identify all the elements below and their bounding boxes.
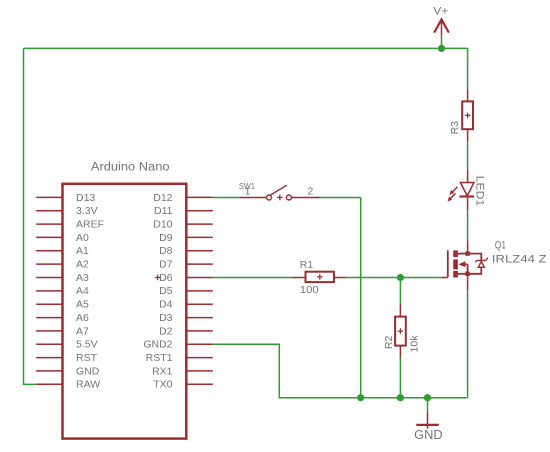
pin D12 (right) bbox=[153, 192, 213, 204]
pin GND2 (right) bbox=[143, 339, 212, 351]
svg-text:D9: D9 bbox=[159, 232, 173, 244]
pin D11 (right) bbox=[154, 205, 213, 217]
resistor R3 bbox=[449, 89, 473, 142]
wire R2 to bottom rail bbox=[399, 358, 401, 398]
svg-text:D6: D6 bbox=[159, 272, 173, 284]
svg-text:GND2: GND2 bbox=[143, 339, 172, 351]
pin RAW (left) bbox=[36, 379, 100, 391]
svg-text:D12: D12 bbox=[153, 192, 172, 204]
junction bottom GND bbox=[424, 394, 431, 401]
svg-text:RST1: RST1 bbox=[146, 352, 173, 364]
pin D2 (right) bbox=[159, 325, 213, 337]
svg-text:D8: D8 bbox=[159, 245, 173, 257]
svg-text:A5: A5 bbox=[76, 299, 89, 311]
pin GND (left) bbox=[36, 365, 100, 377]
svg-text:Arduino Nano: Arduino Nano bbox=[91, 161, 170, 173]
wire Q1 source down bbox=[467, 291, 469, 398]
pin 3.3V (left) bbox=[36, 205, 97, 217]
svg-text:RX1: RX1 bbox=[152, 365, 173, 377]
pin 5.5V (left) bbox=[36, 339, 97, 351]
switch SW1 bbox=[239, 181, 320, 200]
resistor R1 100 bbox=[292, 259, 347, 296]
junction V+ rail bbox=[438, 45, 445, 52]
pin TX0 (right) bbox=[153, 379, 213, 391]
pin D13 (left) bbox=[36, 192, 95, 204]
wire junction down to R2 bbox=[399, 278, 401, 304]
svg-text:10k: 10k bbox=[409, 335, 421, 353]
wire bottom rail bbox=[361, 397, 468, 399]
svg-text:100: 100 bbox=[300, 284, 319, 296]
wire switch branch down bbox=[360, 198, 362, 398]
pin A3 (left) bbox=[36, 272, 89, 284]
svg-text:R3: R3 bbox=[449, 121, 461, 135]
transistor Q1 IRLZ44Z bbox=[442, 240, 547, 291]
svg-text:GND: GND bbox=[76, 365, 100, 377]
svg-text:IRLZ44 Z: IRLZ44 Z bbox=[492, 254, 547, 266]
svg-text:A1: A1 bbox=[76, 245, 89, 257]
wire LED1 to Q1 drain bbox=[467, 211, 469, 241]
svg-text:D10: D10 bbox=[153, 219, 172, 231]
svg-text:R1: R1 bbox=[300, 259, 314, 271]
pin D10 (right) bbox=[153, 219, 213, 231]
svg-text:D4: D4 bbox=[159, 299, 173, 311]
pin RST1 (right) bbox=[146, 352, 213, 364]
pin A2 (left) bbox=[36, 259, 89, 271]
svg-text:A4: A4 bbox=[76, 285, 89, 297]
pin D4 (right) bbox=[159, 299, 213, 311]
svg-text:A7: A7 bbox=[76, 325, 89, 337]
svg-text:R2: R2 bbox=[383, 336, 395, 350]
junction bottom left bbox=[357, 394, 364, 401]
svg-text:3.3V: 3.3V bbox=[76, 205, 98, 217]
pin A7 (left) bbox=[36, 325, 89, 337]
origin cross D6 bbox=[155, 275, 161, 281]
svg-text:D2: D2 bbox=[159, 325, 173, 337]
pin D6 (right) bbox=[159, 272, 213, 284]
wire R3 to LED1 bbox=[467, 142, 469, 170]
svg-text:A2: A2 bbox=[76, 259, 89, 271]
pin D9 (right) bbox=[159, 232, 213, 244]
wire SW1 to corner bbox=[320, 197, 361, 199]
svg-text:AREF: AREF bbox=[76, 219, 104, 231]
pin D5 (right) bbox=[159, 285, 213, 297]
resistor R2 10k bbox=[383, 303, 421, 357]
pin A5 (left) bbox=[36, 299, 89, 311]
svg-text:1: 1 bbox=[245, 186, 251, 198]
svg-text:LED1: LED1 bbox=[474, 176, 486, 207]
pin RX1 (right) bbox=[152, 365, 213, 377]
svg-text:A6: A6 bbox=[76, 312, 89, 324]
pin RST (left) bbox=[36, 352, 97, 364]
svg-text:2: 2 bbox=[308, 186, 314, 198]
ground GND bbox=[414, 398, 442, 442]
svg-text:RAW: RAW bbox=[76, 379, 100, 391]
junction R2 tap bbox=[397, 274, 404, 281]
svg-text:D3: D3 bbox=[159, 312, 173, 324]
wire top rail right to R3 corner bbox=[442, 48, 468, 89]
wire top rail bbox=[24, 47, 442, 49]
pin A4 (left) bbox=[36, 285, 89, 297]
svg-text:V+: V+ bbox=[433, 6, 448, 18]
IC U Arduino Nano box bbox=[63, 161, 187, 438]
wire D6 to R1 bbox=[213, 277, 293, 279]
LED LED1 bbox=[448, 170, 486, 211]
pin A6 (left) bbox=[36, 312, 89, 324]
svg-text:D13: D13 bbox=[76, 192, 95, 204]
svg-text:D7: D7 bbox=[159, 259, 173, 271]
svg-text:GND: GND bbox=[414, 428, 442, 442]
svg-text:A3: A3 bbox=[76, 272, 89, 284]
junction bottom R2 bbox=[397, 394, 404, 401]
wire R1 to Q1 gate bbox=[347, 277, 442, 279]
pin D3 (right) bbox=[159, 312, 213, 324]
wire left rail bbox=[24, 48, 37, 384]
pin D8 (right) bbox=[159, 245, 213, 257]
pin D7 (right) bbox=[159, 259, 213, 271]
svg-text:A0: A0 bbox=[76, 232, 89, 244]
svg-text:D5: D5 bbox=[159, 285, 173, 297]
svg-text:RST: RST bbox=[76, 352, 98, 364]
supply V+ bbox=[433, 6, 449, 49]
pin AREF (left) bbox=[36, 219, 104, 231]
svg-text:TX0: TX0 bbox=[153, 379, 172, 391]
svg-text:Q1: Q1 bbox=[495, 240, 506, 252]
wire D12 to SW1 bbox=[213, 197, 240, 199]
pin A1 (left) bbox=[36, 245, 89, 257]
wire GND2 run bbox=[213, 344, 361, 397]
pin A0 (left) bbox=[36, 232, 89, 244]
svg-text:D11: D11 bbox=[154, 205, 173, 217]
svg-text:5.5V: 5.5V bbox=[76, 339, 98, 351]
